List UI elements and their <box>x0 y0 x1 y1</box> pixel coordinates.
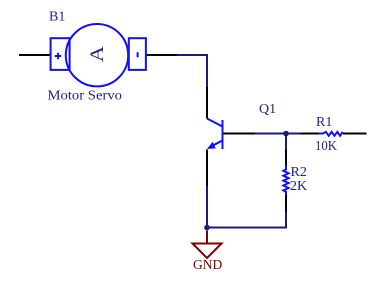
svg-text:A: A <box>87 46 108 62</box>
svg-text:B1: B1 <box>49 10 65 25</box>
svg-text:R2: R2 <box>291 165 307 180</box>
svg-text:R1: R1 <box>316 115 332 130</box>
svg-text:2K: 2K <box>290 179 307 194</box>
svg-text:Motor Servo: Motor Servo <box>48 88 123 103</box>
svg-text:10K: 10K <box>315 139 337 154</box>
svg-text:Q1: Q1 <box>259 102 276 117</box>
svg-text:GND: GND <box>193 258 222 273</box>
